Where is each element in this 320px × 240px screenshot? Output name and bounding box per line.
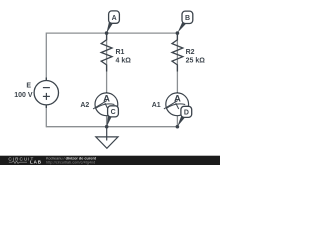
svg-text:A2: A2 [80,102,89,109]
junction dot node B [176,31,180,35]
wire top horizontal [46,32,177,34]
node A flag [106,11,119,34]
node C flag [107,106,119,127]
svg-text:B: B [185,15,190,22]
ground [96,127,118,149]
wire branch1 lower vertical [106,116,108,127]
wire branch2 lower vertical [176,116,178,128]
junction dot node C [105,125,109,129]
ammeter A2 [93,92,118,116]
wire left vertical lower [45,105,47,128]
svg-text:http://circuitlab.com/c/4tg4nd: http://circuitlab.com/c/4tg4nd [46,160,95,164]
svg-text:4 kΩ: 4 kΩ [116,58,132,65]
watermark logo squiggle [9,161,27,164]
wire bottom horizontal [46,126,177,128]
wire branch1 mid vertical [106,33,108,93]
svg-text:A: A [112,15,117,22]
resistor R1 [101,33,112,71]
wire left vertical upper [45,33,47,81]
junction dot node D [176,125,180,129]
junction dot node A [105,31,109,35]
resistor R2 [172,33,183,71]
node D flag [177,106,191,126]
svg-text:A: A [174,94,181,105]
svg-text:100 V: 100 V [14,92,33,99]
svg-text:25 kΩ: 25 kΩ [186,58,206,65]
svg-text:D: D [184,110,189,117]
svg-text:LAB: LAB [30,160,42,165]
watermark bar [0,156,220,165]
voltage source E [34,78,58,109]
node B flag [178,11,193,33]
svg-text:E: E [26,83,31,90]
svg-text:R2: R2 [186,49,195,56]
svg-text:R1: R1 [116,49,125,56]
wire branch2 right vertical [176,33,178,93]
svg-text:A: A [103,94,110,105]
ammeter A1 [164,92,189,116]
svg-text:C: C [111,109,116,116]
svg-text:A1: A1 [152,102,161,109]
